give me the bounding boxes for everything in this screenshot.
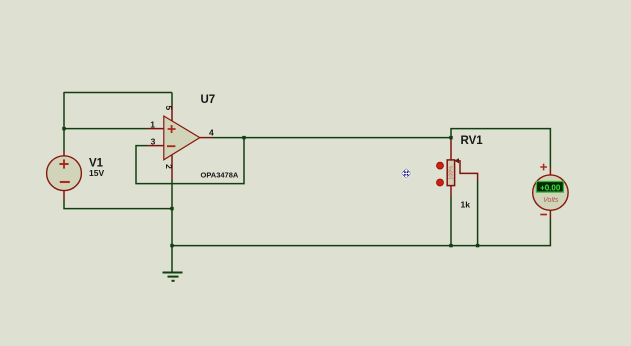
move cursor halo <box>400 167 412 179</box>
op-amp U7 pin3 stub <box>147 145 164 147</box>
wire RV1 bottom green part <box>450 196 452 246</box>
svg-text:2: 2 <box>164 164 174 169</box>
voltmeter minus symbol <box>540 214 547 216</box>
node junction pin2/bottom-rail <box>170 244 173 247</box>
voltage source V1 body <box>47 156 82 191</box>
svg-text:1: 1 <box>150 119 155 129</box>
sim indicator dot top <box>437 162 444 169</box>
svg-text:15V: 15V <box>89 168 104 178</box>
wire pin2 down to ground <box>171 179 173 273</box>
svg-text:Volts: Volts <box>543 197 559 204</box>
node junction output/RV1 <box>449 136 452 139</box>
wire pin1 horizontal <box>64 128 147 130</box>
op-amp U7 body <box>164 116 200 160</box>
potentiometer RV1 bottom pin stub <box>450 186 452 197</box>
op-amp U7 pin5 stub <box>171 105 173 121</box>
wire V1 bottom to pin2 line <box>64 200 172 209</box>
node junction V1/pin1 <box>62 127 65 130</box>
voltage source V1 pin top stub <box>63 151 65 156</box>
wire wiper green part <box>477 180 479 246</box>
wire bottom rail <box>172 219 550 246</box>
svg-text:5: 5 <box>164 106 174 111</box>
voltmeter body <box>533 175 568 210</box>
move cursor arrows <box>402 169 410 177</box>
voltmeter plus symbol <box>540 164 547 171</box>
potentiometer RV1 wiper arrow <box>454 158 459 163</box>
move cursor diamond <box>401 168 411 178</box>
svg-text:1k: 1k <box>461 199 471 209</box>
voltage source V1 plus symbol <box>59 159 68 168</box>
voltmeter top pin stub <box>549 168 551 176</box>
op-amp U7 pin4 stub <box>200 137 212 139</box>
voltmeter bottom pin stub <box>549 210 551 218</box>
sim indicator dot bottom <box>437 179 444 186</box>
node junction feedback/output <box>242 136 245 139</box>
svg-text:RV1: RV1 <box>461 135 484 147</box>
wire top rail V1 to pin5 <box>64 92 172 94</box>
svg-text:4: 4 <box>209 128 214 138</box>
svg-text:U7: U7 <box>201 94 216 106</box>
op-amp U7 minus symbol <box>167 145 175 147</box>
potentiometer RV1 body <box>447 160 454 186</box>
wire pin5 supply green <box>171 93 173 106</box>
node junction pin2/V1-bottom <box>170 207 173 210</box>
op-amp U7 pin1 stub <box>147 128 164 130</box>
node junction rail/RV1 bottom <box>449 244 452 247</box>
wire RV1 top pin green part <box>450 138 452 140</box>
wire output to RV1 <box>212 137 451 139</box>
wire V1 top vertical <box>63 92 65 151</box>
node junction rail/wiper <box>476 244 479 247</box>
voltage source V1 pin bottom stub <box>63 191 65 200</box>
potentiometer RV1 top pin stub <box>450 140 452 160</box>
potentiometer RV1 wiper wire <box>456 161 478 180</box>
svg-text:3: 3 <box>151 137 156 147</box>
wire pin3 to feedback <box>136 138 244 184</box>
svg-text:+0.00: +0.00 <box>540 184 561 193</box>
op-amp U7 plus symbol <box>168 125 176 133</box>
voltage source V1 minus symbol <box>60 181 70 183</box>
ground <box>163 273 183 281</box>
wire RV1 jog up and top right rail to voltmeter <box>451 129 550 168</box>
svg-text:100%: 100% <box>448 166 454 180</box>
svg-text:OPA3478A: OPA3478A <box>201 170 239 179</box>
voltmeter display <box>536 182 563 193</box>
op-amp U7 pin2 stub <box>171 155 173 179</box>
